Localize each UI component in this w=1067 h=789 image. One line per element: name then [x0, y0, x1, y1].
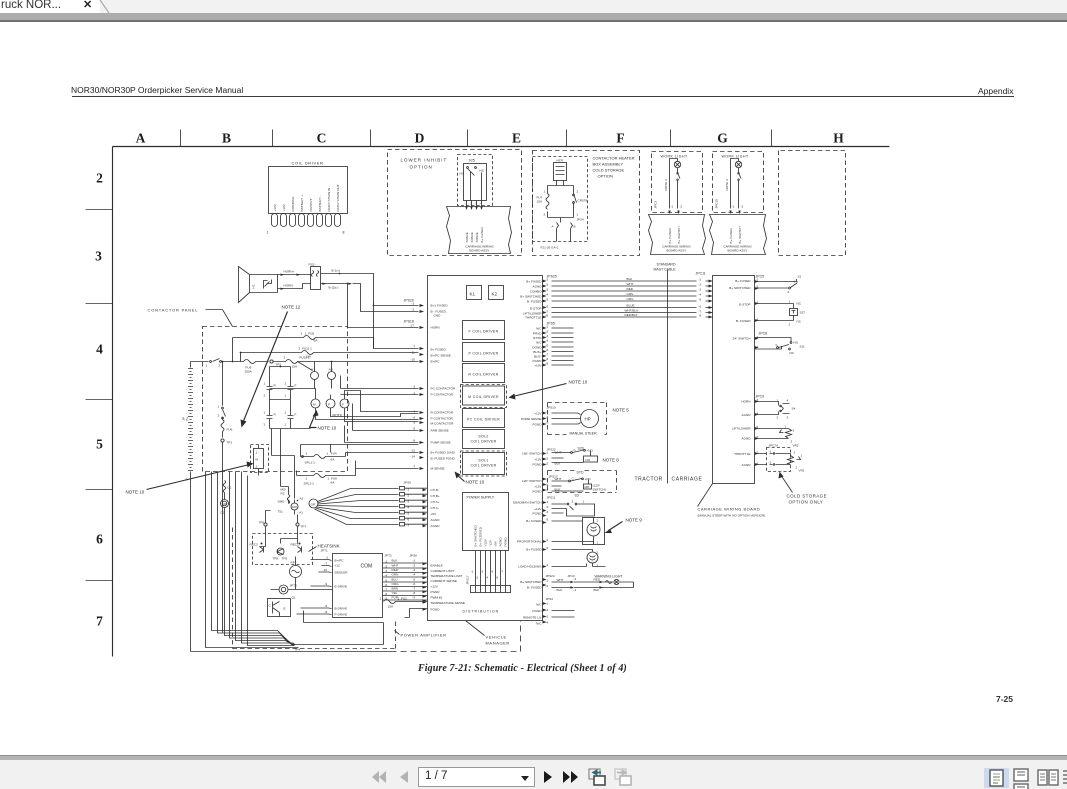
svg-text:PUMP SENSE: PUMP SENSE: [431, 441, 451, 445]
horn button S4: [755, 402, 779, 415]
connector JPS5 pin arrows: [543, 327, 547, 367]
svg-text:WHT/BLK: WHT/BLK: [625, 309, 640, 313]
svg-text:MD: MD: [222, 502, 228, 506]
svg-text:-1: -1: [546, 410, 549, 414]
svg-text:PGND: PGND: [533, 512, 543, 516]
svg-text:2: 2: [789, 323, 791, 327]
svg-text:P-DRIVE: P-DRIVE: [335, 613, 348, 617]
wire B-1(+): [321, 274, 374, 349]
svg-text:CARRIAGE WIRING BOARD: CARRIAGE WIRING BOARD: [698, 507, 761, 512]
current sensor toroid: [279, 585, 288, 594]
svg-text:- A1: - A1: [298, 511, 304, 515]
svg-text:1 a: 1 a: [794, 280, 799, 284]
switch S27 emergency stop: [755, 304, 794, 321]
svg-text:-5: -5: [546, 518, 549, 522]
svg-text:M: M: [313, 403, 316, 407]
svg-text:RED: RED: [627, 287, 634, 291]
svg-text:4: 4: [787, 399, 789, 403]
svg-text:RTXD: RTXD: [533, 336, 542, 340]
svg-text:15A: 15A: [537, 200, 543, 204]
svg-text:A2: A2: [300, 497, 304, 501]
svg-text:S3: S3: [575, 494, 579, 498]
svg-text:LIFT/LOWER: LIFT/LOWER: [732, 427, 751, 431]
horn H1: [239, 267, 278, 303]
svg-text:TEMPERATURE LIMIT: TEMPERATURE LIMIT: [431, 574, 463, 578]
svg-text:-7: -7: [325, 562, 328, 566]
M coil driver: [461, 385, 507, 408]
svg-text:(MANUAL STEER WITH NO OPTION V: (MANUAL STEER WITH NO OPTION VERSION): [698, 514, 766, 518]
vehicle manager enclosure: [428, 276, 543, 621]
svg-text:2: 2: [577, 190, 579, 194]
svg-text:-3: -3: [546, 288, 549, 292]
svg-text:NC: NC: [480, 169, 485, 173]
svg-text:-1: -1: [756, 335, 759, 339]
switch S1: [755, 279, 798, 288]
connector JPS25 pin arrows: [543, 280, 547, 319]
svg-text:SENSOR: SENSOR: [335, 571, 349, 575]
svg-text:+12V: +12V: [534, 412, 542, 416]
svg-text:REMOTE L/L: REMOTE L/L: [523, 616, 542, 620]
svg-text:B+ SWITCHED: B+ SWITCHED: [520, 295, 542, 299]
svg-text:T51: T51: [278, 510, 284, 514]
svg-text:-1: -1: [546, 451, 549, 455]
svg-text:-3: -3: [546, 462, 549, 466]
drawing border frame top edge: [113, 146, 890, 148]
svg-text:PS2-: PS2-: [309, 263, 316, 267]
svg-text:-6: -6: [546, 546, 549, 550]
svg-text:B+ SWITCHED: B+ SWITCHED: [474, 525, 478, 547]
svg-text:2: 2: [777, 416, 779, 420]
svg-text:-4: -4: [546, 621, 549, 625]
S25 wires to carriage board pins: [467, 201, 482, 207]
svg-text:15A: 15A: [388, 605, 394, 609]
svg-text:TP4: TP4: [295, 648, 301, 652]
svg-text:CURRENT SENSE: CURRENT SENSE: [431, 579, 457, 583]
svg-text:1: 1: [267, 231, 269, 235]
svg-text:E: E: [512, 131, 521, 146]
svg-text:BATTERY -: BATTERY -: [318, 196, 322, 212]
junction TP4: [292, 643, 295, 646]
svg-text:-17: -17: [410, 324, 415, 328]
connector JPC5 JPC8 JPC9 pin arrows: [755, 280, 759, 466]
svg-text:-4: -4: [546, 563, 549, 567]
svg-text:CH A-: CH A-: [431, 506, 439, 510]
svg-text:F-CONTACTOR: F-CONTACTOR: [431, 417, 454, 421]
splice node GR: [309, 499, 318, 508]
contact R2: [267, 410, 273, 429]
svg-text:-5: -5: [413, 427, 416, 431]
svg-text:-2: -2: [546, 415, 549, 419]
wires linking contacts: [270, 367, 311, 429]
svg-text:2: 2: [544, 213, 546, 217]
svg-text:WORK LIGHT: WORK LIGHT: [722, 155, 750, 159]
svg-text:1: 1: [583, 500, 585, 504]
relay K2: [489, 286, 504, 300]
svg-text:DAISY CHAIN IN: DAISY CHAIN IN: [327, 188, 331, 212]
R coil driver: [463, 364, 505, 383]
svg-text:R COIL DRIVER: R COIL DRIVER: [468, 373, 498, 377]
svg-text:POWER AMPLIFIER: POWER AMPLIFIER: [401, 633, 447, 638]
svg-text:R-CONTACTOR: R-CONTACTOR: [431, 411, 454, 415]
svg-text:BUS+: BUS+: [533, 350, 541, 354]
svg-text:+12V: +12V: [282, 203, 286, 211]
svg-text:-5: -5: [325, 604, 328, 608]
svg-text:-5: -5: [546, 298, 549, 302]
svg-text:F: F: [616, 131, 624, 146]
svg-text:COIL DRIVER: COIL DRIVER: [470, 440, 496, 444]
svg-text:CH A+: CH A+: [431, 500, 440, 504]
svg-text:2: 2: [284, 356, 286, 360]
svg-text:-2: -2: [470, 202, 473, 206]
svg-text:STD: STD: [577, 471, 584, 475]
svg-text:NC: NC: [790, 351, 795, 355]
fuse FU8 6A: [233, 336, 374, 340]
svg-text:NOTE 4: NOTE 4: [725, 179, 729, 190]
svg-text:2: 2: [597, 551, 599, 555]
svg-text:2: 2: [306, 477, 308, 481]
svg-text:E-STOP: E-STOP: [739, 303, 750, 307]
svg-text:P-CONTACTOR: P-CONTACTOR: [431, 393, 454, 397]
svg-text:WHT: WHT: [392, 564, 399, 568]
svg-text:+NC: +NC: [585, 477, 592, 481]
svg-text:BOARD ASSY: BOARD ASSY: [728, 249, 748, 253]
svg-text:-2: -2: [546, 283, 549, 287]
contactor coil K1: [311, 372, 319, 380]
svg-text:THROTTLE: THROTTLE: [525, 316, 541, 320]
svg-text:E-STOP: E-STOP: [530, 307, 541, 311]
svg-text:B: B: [574, 225, 576, 229]
switch S2 (120 deg std) dashed box: [548, 471, 617, 493]
test point TP7: [296, 523, 299, 526]
svg-text:GRN: GRN: [392, 573, 399, 577]
svg-text:HORN-: HORN-: [284, 284, 294, 288]
svg-text:B+: B+: [185, 416, 189, 420]
svg-text:D: D: [415, 131, 425, 146]
svg-text:B+1 FUSED: B+1 FUSED: [431, 304, 449, 308]
svg-text:+5V: +5V: [494, 540, 498, 547]
svg-text:JPT1: JPT1: [321, 549, 329, 553]
svg-text:1: 1: [577, 213, 579, 217]
svg-text:B+/PC: B+/PC: [335, 559, 345, 563]
distribution connector strip: [471, 586, 511, 593]
svg-text:-2: -2: [476, 576, 479, 580]
svg-text:LOAD HOLDING: LOAD HOLDING: [518, 565, 542, 569]
svg-text:N/C: N/C: [536, 327, 542, 331]
svg-text:+5V: +5V: [431, 512, 438, 516]
svg-text:+12V: +12V: [273, 203, 277, 211]
svg-text:BLU: BLU: [392, 578, 398, 582]
svg-text:-2: -2: [699, 283, 702, 287]
lamp 2 wiring and switch: [731, 159, 742, 209]
pgnd return wire: [405, 609, 428, 618]
svg-text:LOWER INHIBIT: LOWER INHIBIT: [401, 158, 448, 163]
switch and fuse FU6: [221, 362, 226, 438]
previous view icon: [587, 768, 607, 787]
svg-text:-2: -2: [574, 577, 577, 581]
horn relay contact: [264, 280, 272, 289]
svg-text:-9: -9: [325, 582, 328, 586]
svg-text:-1: -1: [546, 325, 549, 329]
svg-text:M COIL DRIVER: M COIL DRIVER: [468, 395, 499, 399]
svg-text:K1: K1: [470, 292, 476, 297]
svg-text:1: 1: [264, 411, 266, 415]
svg-text:CURRENT LIMIT: CURRENT LIMIT: [431, 569, 455, 573]
svg-text:AGND: AGND: [742, 437, 752, 441]
svg-text:1: 1: [256, 451, 258, 455]
svg-text:K1: K1: [312, 368, 316, 372]
svg-text:S27: S27: [800, 311, 806, 315]
svg-text:6A: 6A: [331, 481, 336, 485]
svg-text:-1: -1: [546, 278, 549, 282]
steer motor HP: [581, 410, 599, 428]
svg-text:-8: -8: [546, 314, 549, 318]
heatsink dashed box: [253, 534, 313, 565]
svg-text:-2: -2: [413, 385, 416, 389]
svg-text:K2: K2: [492, 292, 498, 297]
svg-text:2: 2: [264, 423, 266, 427]
svg-text:BLUE: BLUE: [627, 304, 635, 308]
svg-text:-7: -7: [546, 353, 549, 357]
svg-text:-2: -2: [546, 584, 549, 588]
page layout icons: [984, 768, 1009, 788]
svg-text:CH B-: CH B-: [431, 488, 439, 492]
svg-text:-3: -3: [546, 488, 549, 492]
svg-text:1: 1: [789, 300, 791, 304]
connector JPC11 pin arrows: [709, 280, 713, 319]
svg-text:BLK: BLK: [392, 559, 399, 563]
svg-text:JPC7A: JPC7A: [769, 444, 780, 448]
right-side vm connector pin arrows (JPS10 JPS22 JPS13 JPS11 solenoid warning JPS3): [543, 412, 547, 624]
svg-text:3: 3: [95, 249, 102, 264]
wires from panel to vehicle manager B+ pins: [346, 338, 419, 362]
svg-text:JPT3: JPT3: [290, 584, 298, 588]
svg-text:ORG: ORG: [627, 297, 635, 301]
svg-text:JPT2: JPT2: [385, 554, 393, 558]
vm bottom-left pin labels: [431, 564, 466, 612]
SOL1 coil driver: [461, 451, 507, 476]
svg-text:DGND: DGND: [532, 346, 542, 350]
svg-text:-1: -1: [769, 450, 772, 454]
svg-text:15A: 15A: [306, 355, 312, 359]
svg-text:OPTION ONLY: OPTION ONLY: [789, 500, 824, 505]
svg-text:B-(2)(-): B-(2)(-): [329, 286, 339, 290]
svg-text:BLK: BLK: [627, 277, 634, 281]
svg-text:-5: -5: [546, 344, 549, 348]
wires from heatsink area down: [260, 527, 298, 547]
svg-text:-9: -9: [546, 362, 549, 366]
contact F2: [288, 410, 294, 429]
svg-text:-3: -3: [413, 392, 416, 396]
svg-text:P COIL DRIVER: P COIL DRIVER: [468, 352, 498, 356]
svg-text:-1: -1: [732, 205, 735, 209]
test point TP2: [270, 360, 273, 363]
relay contact CR578: [574, 194, 577, 212]
svg-text:COLD STORAGE: COLD STORAGE: [787, 494, 827, 499]
svg-text:-2: -2: [756, 345, 759, 349]
svg-text:JPS17: JPS17: [466, 575, 470, 584]
svg-text:POWER SUPPLY: POWER SUPPLY: [467, 496, 495, 500]
svg-text:-6: -6: [546, 305, 549, 309]
mast cable wire colours: [625, 277, 640, 317]
svg-text:-6: -6: [699, 305, 702, 309]
svg-text:B+/PC SENSE: B+/PC SENSE: [431, 354, 451, 358]
svg-text:F21-26 GA-1: F21-26 GA-1: [541, 246, 559, 250]
svg-text:A: A: [136, 131, 146, 146]
fuse block PS2: [311, 267, 321, 290]
potentiometer VR2: [755, 429, 792, 439]
svg-text:-8: -8: [413, 591, 416, 595]
bottom wire bundle: [191, 472, 521, 652]
solenoid coil F: [340, 399, 349, 408]
svg-text:B+ SWITCH: B+ SWITCH: [738, 227, 742, 244]
svg-text:-1: -1: [471, 570, 474, 574]
fuse FU12 15A: [274, 360, 346, 364]
power amplifier dashed boundary: [233, 528, 396, 649]
svg-text:JPS3: JPS3: [546, 597, 554, 601]
svg-text:7: 7: [96, 614, 103, 629]
svg-text:-6: -6: [413, 416, 416, 420]
svg-text:-4: -4: [699, 293, 702, 297]
svg-text:-1: -1: [699, 278, 702, 282]
svg-text:E: E: [284, 607, 286, 611]
drive motor MD armature: [221, 500, 229, 508]
wires coils to vm pins: [316, 413, 419, 422]
svg-text:SOL2: SOL2: [478, 435, 488, 439]
svg-text:PGND: PGND: [533, 359, 543, 363]
svg-text:24° SWITCH: 24° SWITCH: [733, 337, 751, 341]
svg-text:1: 1: [264, 382, 266, 386]
horn feed wire to JPS18: [348, 284, 419, 328]
svg-text:BLK: BLK: [594, 588, 601, 592]
carriage wiring board: [713, 276, 755, 484]
svg-text:OUTPUT: OUTPUT: [309, 199, 313, 212]
svg-text:R: R: [274, 384, 277, 388]
fuse FU4 with splice: [301, 455, 346, 459]
svg-text:+12V: +12V: [484, 538, 488, 546]
svg-text:B+ FUSED: B+ FUSED: [526, 280, 542, 284]
mast cable wires: [543, 281, 697, 317]
svg-text:B- FUSED: B- FUSED: [527, 300, 542, 304]
svg-text:B+ SWITCHED: B+ SWITCHED: [729, 286, 751, 290]
svg-text:1: 1: [785, 425, 787, 429]
svg-text:COLD STORAGE: COLD STORAGE: [593, 168, 625, 173]
svg-text:B+ SWITCH: B+ SWITCH: [677, 227, 681, 244]
svg-text:VR1: VR1: [799, 469, 805, 473]
svg-text:-10: -10: [323, 568, 328, 572]
svg-text:JPC15: JPC15: [715, 199, 719, 209]
svg-text:HP: HP: [585, 417, 591, 422]
svg-text:JPS8: JPS8: [410, 554, 418, 558]
P coil driver: [463, 343, 505, 362]
svg-text:B- FUSED PGND: B- FUSED PGND: [431, 457, 456, 461]
svg-text:-4: -4: [486, 576, 489, 580]
svg-text:B- FUSED: B- FUSED: [527, 586, 542, 590]
key switch S contact: [191, 359, 233, 362]
wires to vm pc pins: [341, 376, 419, 395]
svg-text:1: 1: [801, 454, 803, 458]
svg-text:MD: MD: [585, 485, 591, 489]
svg-text:-11: -11: [411, 351, 416, 355]
svg-text:WORK LIGHT: WORK LIGHT: [661, 155, 689, 159]
svg-text:ORG: ORG: [392, 582, 400, 586]
svg-text:-2: -2: [546, 538, 549, 542]
svg-text:B- FUSED: B- FUSED: [736, 319, 751, 323]
svg-text:MANAGER: MANAGER: [486, 641, 510, 646]
svg-text:DAISY CHAIN OUT: DAISY CHAIN OUT: [336, 184, 340, 211]
svg-text:S25: S25: [469, 159, 475, 163]
row tick marks: [86, 210, 113, 581]
svg-text:DEADMAN SWITCH: DEADMAN SWITCH: [513, 501, 542, 505]
svg-text:B+ FUSED JUND: B+ FUSED JUND: [431, 451, 456, 455]
svg-text:180° SWITCH: 180° SWITCH: [522, 452, 541, 456]
svg-text:-8: -8: [325, 610, 328, 614]
svg-text:B+ FUSED: B+ FUSED: [431, 348, 447, 352]
svg-text:-5: -5: [491, 570, 494, 574]
svg-text:1: 1: [218, 405, 220, 409]
svg-text:2: 2: [218, 414, 220, 418]
fuse FU7: [546, 194, 549, 210]
horn wires to PS2: [278, 275, 311, 289]
svg-text:2: 2: [96, 171, 103, 186]
svg-text:-5: -5: [699, 298, 702, 302]
svg-text:TP8: TP8: [273, 557, 279, 561]
svg-text:C: C: [317, 131, 327, 146]
svg-text:NOTE 10: NOTE 10: [318, 426, 337, 431]
svg-text:250A: 250A: [245, 370, 253, 374]
wire B-2(-): [321, 284, 361, 309]
page number: [996, 694, 1013, 704]
svg-text:AGND: AGND: [533, 285, 543, 289]
svg-text:+12: +12: [335, 564, 341, 568]
svg-text:B+ FUSED: B+ FUSED: [526, 548, 542, 552]
svg-text:H: H: [833, 131, 844, 146]
svg-text:JPC8: JPC8: [759, 332, 768, 336]
svg-text:1: 1: [285, 394, 287, 398]
svg-text:H1: H1: [252, 284, 256, 288]
svg-text:SPL1-1: SPL1-1: [304, 482, 315, 486]
com power amplifier box: [333, 554, 383, 618]
svg-text:CR578: CR578: [578, 199, 588, 203]
svg-text:2: 2: [597, 519, 599, 523]
svg-text:THROTTLE: THROTTLE: [734, 452, 750, 456]
svg-text:NOTE 10: NOTE 10: [126, 490, 145, 495]
svg-text:-3: -3: [413, 421, 416, 425]
svg-text:Q1: Q1: [292, 596, 296, 600]
svg-text:5: 5: [96, 437, 103, 452]
svg-text:+12V: +12V: [534, 364, 542, 368]
test point TP1: [221, 439, 224, 442]
fan-out wires from GR to JPS connector: [315, 489, 399, 525]
svg-text:2: 2: [788, 290, 790, 294]
power supply distribution wires: [476, 551, 506, 586]
svg-text:D2: D2: [221, 511, 225, 515]
bottom toolbar: [0, 755, 1067, 789]
svg-text:HORN: HORN: [431, 326, 440, 330]
svg-text:CARRIAGE: CARRIAGE: [672, 477, 703, 483]
battery BT1: [188, 362, 193, 652]
svg-text:BLK: BLK: [557, 588, 564, 592]
solenoid coil M: [311, 399, 320, 408]
heater element HTR: [554, 163, 567, 181]
svg-text:-2: -2: [546, 608, 549, 612]
svg-text:RED: RED: [392, 568, 399, 572]
svg-text:1 FU2: 1 FU2: [398, 597, 408, 601]
svg-text:-1: -1: [413, 559, 416, 563]
nav arrows: [371, 770, 387, 784]
svg-text:1: 1: [777, 399, 779, 403]
svg-text:E-DRIVE: E-DRIVE: [335, 585, 348, 589]
svg-text:B+/PC: B+/PC: [431, 360, 441, 364]
